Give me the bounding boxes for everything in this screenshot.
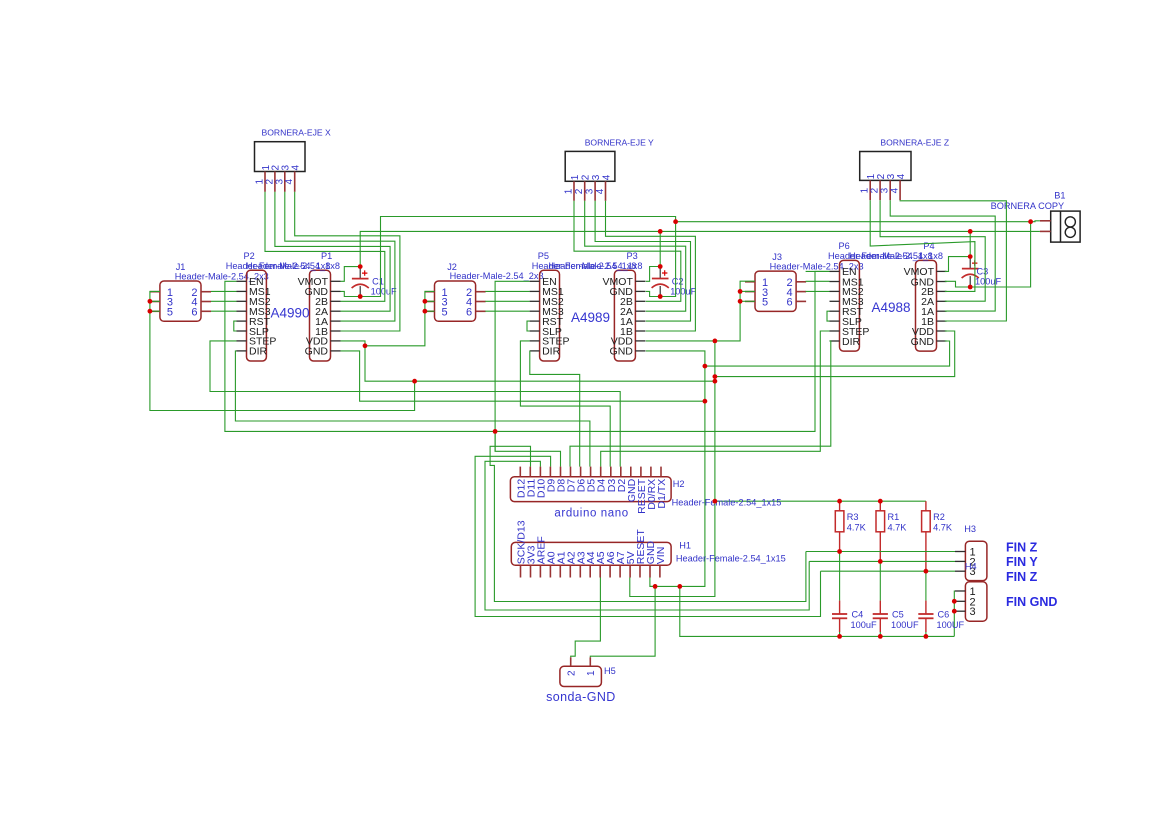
capacitor C1 bottom lead	[359, 286, 361, 296]
P3 pin stub GND	[635, 350, 645, 352]
H1 pin stub VIN	[659, 565, 661, 577]
B1 pin 2 stub	[1040, 230, 1051, 232]
junction GND Z loop	[703, 364, 708, 369]
wire bornera X pin2 to P1 2A	[275, 192, 390, 311]
capacitor C3 curved plate	[962, 274, 979, 278]
P4 pin stub GND	[937, 281, 947, 283]
wire VMOT bus	[360, 231, 1040, 266]
B1 circle bottom	[1065, 227, 1075, 237]
connector H3 body	[965, 541, 987, 580]
P2 pin stub MS2	[237, 300, 247, 302]
H2 pin stub GND	[630, 467, 632, 477]
wire VMOT pin P4 jog	[945, 257, 970, 272]
svg-text:C5: C5	[892, 610, 904, 620]
H2 pin stub D0/RX	[650, 467, 652, 477]
svg-text:R3: R3	[847, 512, 859, 522]
wire J3 pin5 stub link	[740, 300, 755, 302]
H1 pin stub A2	[569, 565, 571, 577]
J3 pin 6 stub	[796, 300, 806, 302]
BORNERA-EJE X pin 3 stub	[284, 172, 286, 192]
H3 pin 3 stub	[955, 570, 965, 572]
svg-text:100uF: 100uF	[851, 620, 877, 630]
junction H4 pin3	[952, 609, 957, 614]
connector H1 body	[511, 542, 671, 565]
connector BORNERA-EJE Z body	[860, 152, 911, 181]
svg-text:H1: H1	[679, 541, 691, 551]
junction VDD node X	[363, 343, 368, 348]
P4 pin stub VMOT	[937, 270, 947, 272]
junction C5 bottom	[878, 634, 883, 639]
H1 pin stub GND	[649, 565, 651, 577]
junction J3 pin5	[738, 299, 743, 304]
resistor R2 body	[922, 511, 931, 532]
P5 pin stub MS1	[530, 290, 540, 292]
wire bornera Z pin1 to P4 2B	[870, 200, 975, 291]
junction B1 GND	[1028, 219, 1033, 224]
svg-text:H2: H2	[673, 479, 685, 489]
wire J1 pin3 stub link	[150, 300, 160, 302]
wire P2 DIR to D5	[235, 351, 590, 467]
wire bornera Y pin2 to P3 2A	[585, 201, 686, 311]
wire VDD bus	[365, 346, 715, 381]
wire VMOT riser to C2	[659, 231, 661, 266]
H2 pin stub D1/TX	[660, 467, 662, 477]
resistor R3 top lead	[839, 501, 841, 511]
junction R2 bottom	[924, 569, 929, 574]
wire J1 pin2 to MS1	[211, 290, 237, 292]
capacitor C1 top lead	[359, 267, 361, 279]
wire J1 pin5 stub link	[150, 310, 160, 312]
wire J1 pins135 vertical	[150, 291, 415, 410]
P4 pin stub VDD	[937, 330, 947, 332]
junction EN bus Y riser	[493, 429, 498, 434]
wire J2 pin2 to MS1	[485, 290, 529, 292]
P5 pin stub MS3	[530, 310, 540, 312]
svg-text:3: 3	[591, 174, 602, 180]
J2 pin 3 stub	[425, 301, 435, 303]
junction C6 bottom	[924, 634, 929, 639]
svg-text:3: 3	[585, 188, 596, 194]
wire P4 VDD loop to VDD riser	[715, 331, 955, 377]
svg-text:100UF: 100UF	[891, 620, 919, 630]
junction R3 bottom	[837, 549, 842, 554]
P1 pin stub 1B	[331, 330, 341, 332]
svg-text:arduino nano: arduino nano	[554, 507, 628, 519]
svg-text:BORNERA-EJE Z: BORNERA-EJE Z	[880, 138, 949, 148]
junction H4 pin2	[952, 599, 957, 604]
J3 pin 2 stub	[796, 281, 806, 283]
wire VDD riser	[630, 341, 715, 597]
svg-text:sonda-GND: sonda-GND	[546, 690, 616, 704]
svg-text:C1: C1	[372, 277, 384, 287]
wire J2 pin6 to MS3	[485, 310, 529, 312]
capacitor C4 bottom wire	[839, 632, 841, 636]
B1 body divider	[1060, 211, 1062, 242]
P6 pin stub DIR	[830, 340, 840, 342]
capacitor C5 top wire	[879, 561, 881, 600]
capacitor C2 flat plate	[652, 278, 669, 280]
wire P2 RST-SLP bracket	[234, 321, 237, 331]
wire bornera Y pin3 to P3 1A	[595, 201, 690, 321]
H1 pin stub SCK/D13	[520, 565, 522, 577]
connector P6 body	[840, 260, 860, 351]
wire bornera Z pin4 to P4 1B	[900, 200, 1006, 321]
junction VMOT bus Z riser	[968, 229, 973, 234]
junction R1 top	[878, 499, 883, 504]
connector P5 body	[540, 270, 560, 361]
P1 pin stub VMOT	[331, 280, 341, 282]
wire FIN2 bus to H3 pin2	[809, 560, 955, 562]
svg-text:BORNERA COPY: BORNERA COPY	[991, 201, 1065, 211]
svg-text:FIN GND: FIN GND	[1006, 595, 1057, 609]
svg-text:C2: C2	[672, 277, 684, 287]
H2 pin stub D6	[580, 467, 582, 477]
connector P3 body	[614, 270, 635, 361]
connector J3 body	[755, 271, 796, 311]
junction VDD Z loop	[713, 374, 718, 379]
junction R1 bottom	[878, 559, 883, 564]
svg-text:Header-Female-2.54_1x15: Header-Female-2.54_1x15	[672, 498, 782, 508]
svg-text:P1: P1	[321, 251, 332, 261]
svg-text:Header-Male-2.54_1x8: Header-Male-2.54_1x8	[849, 251, 943, 261]
J2 pin 5 stub	[425, 310, 435, 312]
BORNERA-EJE X pin 1 stub	[264, 172, 266, 192]
H1 pin stub A3	[579, 565, 581, 577]
H2 pin stub D9	[549, 467, 551, 477]
H2 pin stub D7	[570, 467, 572, 477]
svg-text:R1: R1	[888, 512, 900, 522]
BORNERA-EJE Y pin 1 stub	[573, 181, 575, 201]
wire bornera Y pin4 to P3 1B	[606, 201, 696, 331]
wire H4 gnd bracket	[953, 591, 956, 636]
connector J2 body	[435, 281, 476, 321]
P4 pin stub 2B	[937, 290, 947, 292]
wire P2 EN to EN bus	[225, 271, 830, 431]
resistor R2 top lead	[925, 501, 927, 511]
junction GND bus end	[703, 399, 708, 404]
svg-text:4.7K: 4.7K	[847, 523, 867, 533]
wire 5V pullup bus	[715, 500, 926, 502]
junction C4 bottom	[837, 634, 842, 639]
P3 pin stub GND	[635, 290, 645, 292]
BORNERA-EJE X pin 2 stub	[274, 172, 276, 192]
BORNERA-EJE X pin 4 stub	[294, 172, 296, 192]
junction C3 bottom GND	[968, 285, 973, 290]
BORNERA-EJE Z pin 4 stub	[899, 180, 901, 200]
wire J2 pin5 stub link	[425, 310, 435, 312]
wire A5 to H5 pin2	[571, 578, 601, 658]
capacitor C5 bottom wire	[879, 632, 881, 636]
P4 pin stub 2A	[937, 300, 947, 302]
wire J1 pin6 to MS3	[211, 310, 237, 312]
P2 pin stub RST	[237, 320, 247, 322]
P4 pin stub GND	[937, 340, 947, 342]
junction GND bottom node	[677, 584, 682, 589]
svg-text:5: 5	[442, 307, 448, 319]
svg-text:4.7K: 4.7K	[888, 523, 908, 533]
svg-text:P4: P4	[923, 241, 934, 251]
svg-text:BORNERA-EJE X: BORNERA-EJE X	[262, 128, 332, 138]
wire J3 pin4 to MS2	[806, 280, 830, 282]
P2 pin stub EN	[237, 280, 247, 282]
junction C1 bottom GND	[358, 294, 363, 299]
svg-text:Header-Male-2.54_2x3: Header-Male-2.54_2x3	[450, 271, 544, 281]
junction J1 pin5	[148, 309, 153, 314]
connector J1 body	[160, 281, 201, 321]
wire GND riser to C2	[660, 222, 675, 297]
H1 pin stub RESET	[639, 565, 641, 577]
J2 pin 2 stub	[476, 291, 486, 293]
svg-text:3: 3	[970, 606, 976, 618]
svg-text:6: 6	[191, 307, 197, 319]
capacitor C6 top plate	[918, 613, 933, 615]
P2 pin stub DIR	[237, 350, 247, 352]
wire bornera Z pin2 to P4 2A	[880, 200, 985, 301]
H1 pin stub 5V	[629, 565, 631, 577]
svg-text:6: 6	[466, 307, 472, 319]
H4 pin 3 stub	[955, 610, 965, 612]
svg-text:C6: C6	[938, 610, 950, 620]
capacitor C6 top wire	[925, 571, 927, 600]
capacitor C4 top plate	[832, 613, 847, 615]
wire VMOT pin P3 jog	[646, 267, 660, 282]
junction P3 VDD node	[713, 339, 718, 344]
capacitor C6 bottom lead	[925, 618, 927, 632]
svg-text:H4: H4	[965, 562, 977, 572]
wire P6 STEP to D4	[601, 331, 830, 467]
junction R3 top	[837, 499, 842, 504]
wire P5 RST-SLP bracket	[527, 321, 530, 331]
P1 pin stub 2A	[331, 310, 341, 312]
svg-text:FIN Z: FIN Z	[1006, 570, 1038, 584]
wire bornera Y pin1 to P3 2B	[574, 201, 681, 301]
H1 pin stub AREF	[539, 565, 541, 577]
P5 pin stub SLP	[530, 330, 540, 332]
svg-text:DIR: DIR	[842, 336, 861, 348]
wire P2 STEP to D2	[210, 341, 620, 467]
svg-text:2: 2	[574, 188, 585, 194]
svg-text:BORNERA-EJE Y: BORNERA-EJE Y	[585, 137, 654, 147]
wire J2 pin3 stub link	[425, 300, 435, 302]
svg-text:GND: GND	[610, 346, 634, 358]
P6 pin stub EN	[830, 270, 840, 272]
resistor R3 body	[835, 511, 844, 532]
P3 pin stub 1A	[635, 320, 645, 322]
BORNERA-EJE Y pin 3 stub	[594, 181, 596, 201]
svg-text:D1/TX: D1/TX	[656, 479, 668, 509]
P5 pin stub DIR	[530, 350, 540, 352]
H1 pin stub A5	[599, 565, 601, 577]
junction VDD bus riser	[412, 379, 417, 384]
wire 5V node to J2 pins135	[365, 291, 435, 345]
capacitor C3 plus sign	[972, 260, 977, 265]
capacitor C5 bottom plate	[873, 617, 888, 619]
P1 pin stub 2B	[331, 300, 341, 302]
wire GND bus upper	[360, 217, 675, 297]
svg-text:100uF: 100uF	[670, 287, 696, 297]
junction 5V pullup bus	[713, 499, 718, 504]
P3 pin stub VDD	[635, 340, 645, 342]
J3 pin 5 stub	[745, 300, 755, 302]
capacitor C6 top lead	[925, 601, 927, 614]
capacitor C1 plus sign	[362, 270, 367, 275]
H2 pin stub D12	[519, 467, 521, 477]
svg-text:4: 4	[601, 174, 612, 180]
wire P1 VDD jog to 5V node	[341, 341, 366, 346]
wire H4 pin2 stub link	[953, 600, 956, 602]
svg-text:2: 2	[567, 670, 578, 676]
BORNERA-EJE Z pin 3 stub	[889, 180, 891, 200]
wire FIN1 bus to H3 pin1	[806, 551, 955, 553]
wire GND pin P1 jog	[341, 291, 361, 296]
svg-text:4: 4	[291, 165, 302, 171]
capacitor C3 bottom lead	[969, 276, 971, 287]
svg-text:P2: P2	[244, 251, 255, 261]
P2 pin stub STEP	[237, 340, 247, 342]
svg-text:5: 5	[167, 307, 173, 319]
H1 pin stub A6	[609, 565, 611, 577]
wire P1 GND bottom to GND bus	[341, 351, 705, 401]
wire GND pin P3 jog	[646, 291, 660, 296]
svg-text:R2: R2	[933, 512, 945, 522]
junction VMOT bus Y riser	[658, 229, 663, 234]
H5 pin 2 stub	[570, 657, 572, 666]
connector H4 body	[965, 582, 987, 621]
svg-text:100UF: 100UF	[937, 620, 965, 630]
junction GND bus Y jog	[673, 219, 678, 224]
H2 pin stub D3	[610, 467, 612, 477]
resistor R1 body	[876, 511, 885, 532]
wire P5 STEP to D3	[520, 341, 610, 467]
svg-text:A4989: A4989	[571, 310, 610, 325]
wire B1 GND drop to C3	[970, 222, 1030, 287]
J1 pin 2 stub	[201, 291, 211, 293]
svg-text:FIN Z: FIN Z	[1006, 540, 1038, 554]
BORNERA-EJE Y pin 4 stub	[605, 181, 607, 201]
B1 circle top	[1065, 217, 1075, 227]
junction J3 pin3	[738, 289, 743, 294]
junction H1 GND node	[653, 584, 658, 589]
P6 pin stub MS1	[830, 281, 840, 283]
P2 pin stub MS1	[237, 290, 247, 292]
J2 pin 6 stub	[476, 310, 486, 312]
wire D11 feeder and FIN1 loop	[490, 446, 806, 601]
svg-text:4: 4	[890, 187, 901, 193]
J1 pin 6 stub	[201, 310, 211, 312]
P1 pin stub 1A	[331, 320, 341, 322]
svg-text:Header-Male-2.54_1x8: Header-Male-2.54_1x8	[246, 261, 340, 271]
wire P6 RST-SLP bracket	[827, 311, 830, 321]
J3 pin 4 stub	[796, 291, 806, 293]
svg-text:DIR: DIR	[542, 346, 561, 358]
svg-text:5: 5	[762, 297, 768, 309]
H2 pin stub RESET	[640, 467, 642, 477]
capacitor C6 bottom plate	[918, 617, 933, 619]
connector P2 body	[247, 270, 267, 361]
svg-text:4: 4	[284, 179, 295, 185]
P6 pin stub SLP	[830, 320, 840, 322]
svg-text:GND: GND	[911, 336, 935, 348]
svg-text:100uF: 100uF	[371, 287, 397, 297]
P5 pin stub RST	[530, 320, 540, 322]
capacitor C3 top lead	[969, 257, 971, 269]
P6 pin stub MS2	[830, 290, 840, 292]
wire D8 tap	[494, 431, 496, 451]
svg-text:1: 1	[564, 188, 575, 194]
svg-text:DIR: DIR	[249, 346, 268, 358]
wire P5 EN riser to EN bus and D8	[495, 281, 560, 466]
svg-text:Header-Male-2.54_1x8: Header-Male-2.54_1x8	[549, 261, 643, 271]
svg-text:A4988: A4988	[872, 300, 911, 315]
wire bornera X pin4 to P1 1B	[295, 192, 400, 331]
svg-text:FIN Y: FIN Y	[1006, 555, 1038, 569]
svg-text:4: 4	[896, 173, 907, 179]
junction J1 pin3	[148, 299, 153, 304]
svg-text:C4: C4	[852, 610, 864, 620]
J1 pin 1 stub	[150, 291, 160, 293]
svg-text:4.7K: 4.7K	[933, 523, 953, 533]
wire P3 GND bottom riser to arduino	[646, 351, 705, 587]
wire D10 feeder and FIN2 loop	[485, 461, 809, 610]
P1 pin stub GND	[331, 350, 341, 352]
junction VDD bus end	[713, 379, 718, 384]
svg-text:4: 4	[595, 188, 606, 194]
H1 pin stub A7	[619, 565, 621, 577]
P5 pin stub STEP	[530, 340, 540, 342]
wire VMOT riser to C3	[969, 231, 971, 256]
P5 pin stub MS2	[530, 300, 540, 302]
wire J2 pin4 to MS2	[485, 300, 529, 302]
connector BORNERA-EJE Y body	[565, 151, 615, 181]
svg-text:6: 6	[787, 297, 793, 309]
wire VMOT pin P1 jog	[341, 267, 361, 282]
wire J3 pin3 stub link	[740, 290, 755, 292]
svg-text:1: 1	[570, 174, 581, 180]
resistor R2 bottom lead	[925, 532, 927, 571]
P3 pin stub 2A	[635, 310, 645, 312]
J3 pin 1 stub	[745, 281, 755, 283]
J2 pin 4 stub	[476, 301, 486, 303]
H1 pin stub A1	[559, 565, 561, 577]
svg-text:2: 2	[581, 174, 592, 180]
svg-text:C3: C3	[977, 267, 989, 277]
capacitor C6 bottom wire	[925, 632, 927, 636]
P3 pin stub 1B	[635, 330, 645, 332]
svg-text:H5: H5	[604, 666, 616, 676]
capacitor C4 bottom lead	[839, 618, 841, 632]
wire P6 DIR to D7	[570, 341, 831, 467]
P3 pin stub 2B	[635, 300, 645, 302]
wire bornera X pin3 to P1 1A	[285, 192, 395, 321]
connector H5 body	[560, 666, 602, 686]
junction J2 pin5	[423, 309, 428, 314]
wire P3 VDD to VDD riser and J3	[646, 281, 755, 341]
BORNERA-EJE Z pin 1 stub	[869, 180, 871, 200]
wire D9 feeder and FIN3 loop	[475, 456, 820, 616]
P6 pin stub RST	[830, 310, 840, 312]
P4 pin stub 1B	[937, 320, 947, 322]
junction C3 top VMOT	[968, 254, 973, 259]
wire GND node to bottom bus	[680, 586, 955, 636]
resistor R1 bottom lead	[879, 532, 881, 562]
wire FIN3 bus to H3 pin3	[821, 570, 956, 572]
junction C2 top VMOT	[658, 264, 663, 269]
wire J3 pin2 to MS1	[806, 270, 830, 272]
B1 pin 1 stub	[1040, 220, 1051, 222]
capacitor C5 bottom lead	[879, 618, 881, 632]
svg-text:100uF: 100uF	[975, 277, 1001, 287]
P1 pin stub VDD	[331, 340, 341, 342]
